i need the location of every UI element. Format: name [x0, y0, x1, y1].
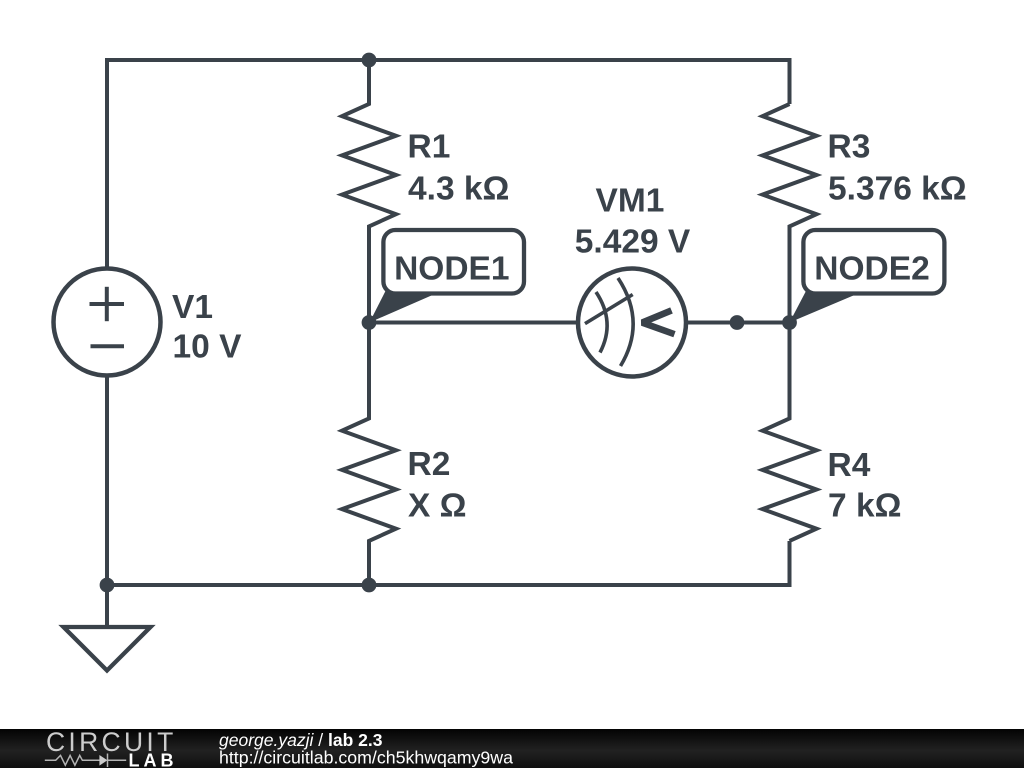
svg-text:R2: R2 [408, 446, 451, 483]
svg-text:LAB: LAB [129, 750, 178, 768]
svg-text:http://circuitlab.com/ch5khwqa: http://circuitlab.com/ch5khwqamy9wa [219, 748, 513, 768]
svg-text:V1: V1 [172, 289, 213, 326]
svg-text:X Ω: X Ω [408, 488, 467, 525]
svg-text:5.429 V: 5.429 V [575, 224, 691, 261]
svg-text:NODE1: NODE1 [394, 251, 509, 288]
svg-text:R3: R3 [828, 129, 871, 166]
svg-text:R4: R4 [828, 447, 871, 484]
svg-text:4.3 kΩ: 4.3 kΩ [408, 171, 509, 208]
svg-text:10 V: 10 V [173, 329, 243, 366]
svg-text:NODE2: NODE2 [814, 251, 929, 288]
svg-text:VM1: VM1 [596, 182, 665, 219]
svg-text:R1: R1 [408, 129, 451, 166]
svg-text:7 kΩ: 7 kΩ [828, 488, 901, 525]
svg-text:5.376 kΩ: 5.376 kΩ [828, 171, 967, 208]
